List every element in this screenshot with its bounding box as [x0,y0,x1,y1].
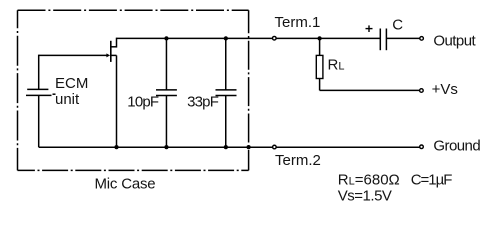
svg-text:Output: Output [433,32,476,49]
svg-text:Vs=1.5V: Vs=1.5V [338,187,392,204]
svg-text:Ground: Ground [433,138,480,155]
svg-text:Term.1: Term.1 [275,14,321,31]
svg-text:33pF: 33pF [187,94,219,111]
svg-text:Term.2: Term.2 [275,152,321,169]
svg-text:Mic Case: Mic Case [95,176,156,193]
svg-text:10pF: 10pF [127,94,159,111]
svg-text:+Vs: +Vs [432,81,458,98]
svg-text:C=1µF: C=1µF [411,172,453,189]
svg-text:RL=680Ω: RL=680Ω [338,172,400,189]
svg-text:C: C [392,17,403,34]
svg-text:unit: unit [55,91,80,108]
svg-text:ECM: ECM [55,75,88,92]
